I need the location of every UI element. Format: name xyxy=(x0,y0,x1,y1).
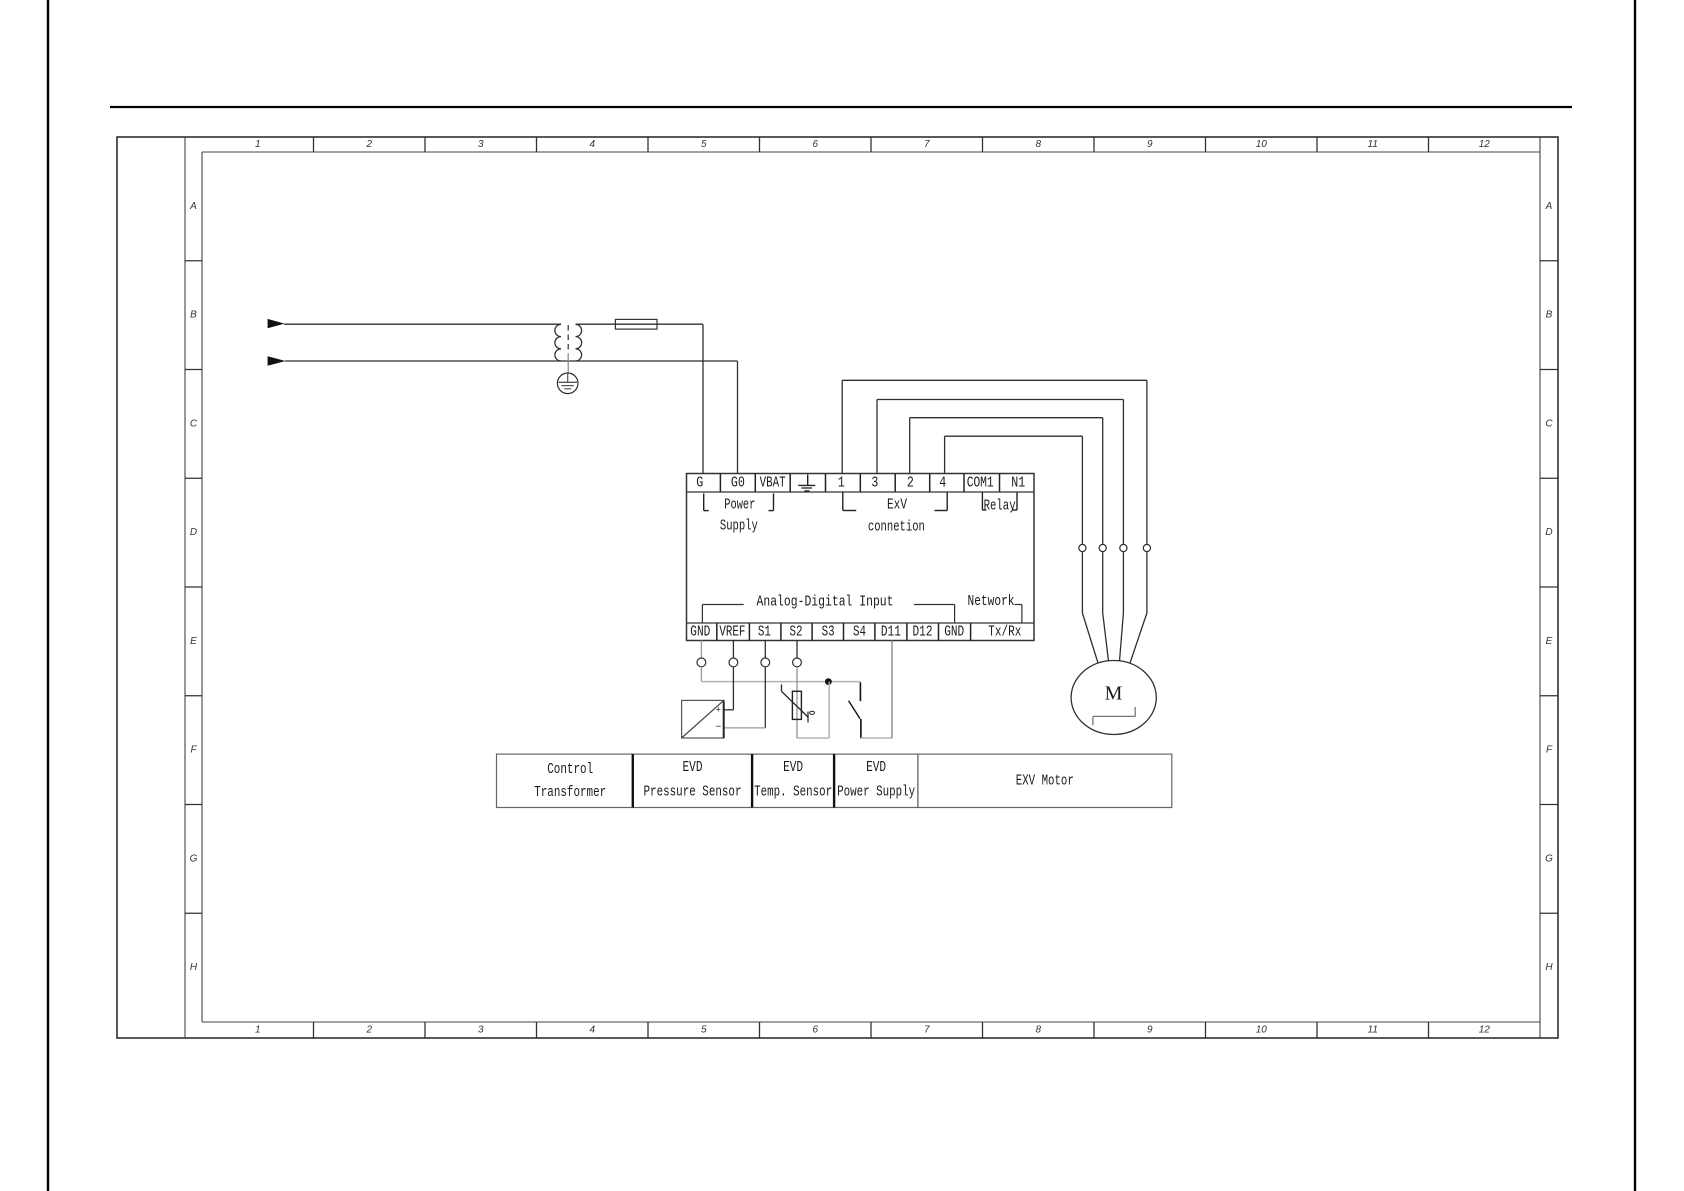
svg-text:2: 2 xyxy=(365,139,372,150)
svg-text:4: 4 xyxy=(939,475,946,492)
svg-text:N1: N1 xyxy=(1011,475,1025,492)
svg-text:GND: GND xyxy=(690,624,710,641)
svg-text:3: 3 xyxy=(478,139,484,150)
svg-text:9: 9 xyxy=(1147,139,1153,150)
svg-text:11: 11 xyxy=(1368,1025,1378,1036)
svg-text:B: B xyxy=(190,310,197,321)
svg-text:COM1: COM1 xyxy=(967,475,994,492)
svg-text:1: 1 xyxy=(255,1025,261,1036)
svg-text:D: D xyxy=(190,527,197,538)
svg-text:S4: S4 xyxy=(853,624,866,641)
svg-text:Tx/Rx: Tx/Rx xyxy=(988,624,1021,641)
svg-text:H: H xyxy=(1545,962,1553,973)
svg-text:GND: GND xyxy=(944,624,964,641)
svg-text:G: G xyxy=(1545,853,1553,864)
svg-text:E: E xyxy=(1546,636,1553,647)
svg-text:D: D xyxy=(1545,527,1552,538)
svg-text:M: M xyxy=(1105,683,1123,705)
svg-text:8: 8 xyxy=(1035,139,1041,150)
svg-text:EVD: EVD xyxy=(783,759,803,776)
svg-text:2: 2 xyxy=(365,1025,372,1036)
svg-text:7: 7 xyxy=(924,1025,930,1036)
svg-text:EVD: EVD xyxy=(866,759,886,776)
svg-text:connetion: connetion xyxy=(868,519,925,536)
svg-text:E: E xyxy=(190,636,197,647)
svg-text:5: 5 xyxy=(701,1025,707,1036)
svg-text:8: 8 xyxy=(1035,1025,1041,1036)
svg-text:S2: S2 xyxy=(790,624,803,641)
svg-text:Relay: Relay xyxy=(984,498,1016,515)
svg-text:A: A xyxy=(189,201,197,212)
svg-text:C: C xyxy=(1545,418,1553,429)
svg-text:G0: G0 xyxy=(731,475,745,492)
svg-text:10: 10 xyxy=(1256,1025,1268,1036)
svg-text:2: 2 xyxy=(907,475,914,492)
svg-text:Supply: Supply xyxy=(720,518,758,535)
svg-text:B: B xyxy=(1546,310,1553,321)
svg-text:S1: S1 xyxy=(758,624,771,641)
svg-text:EXV Motor: EXV Motor xyxy=(1016,773,1074,790)
svg-text:−: − xyxy=(715,721,721,732)
svg-text:H: H xyxy=(190,962,198,973)
svg-text:1: 1 xyxy=(838,475,845,492)
svg-text:6: 6 xyxy=(812,139,818,150)
svg-text:10: 10 xyxy=(1256,139,1268,150)
svg-text:G: G xyxy=(696,475,703,492)
svg-text:1: 1 xyxy=(255,139,261,150)
svg-text:ExV: ExV xyxy=(887,497,907,514)
svg-text:4: 4 xyxy=(589,139,595,150)
svg-text:VREF: VREF xyxy=(719,624,745,641)
svg-text:F: F xyxy=(1546,745,1553,756)
svg-text:Pressure Sensor: Pressure Sensor xyxy=(644,784,742,801)
svg-text:9: 9 xyxy=(1147,1025,1153,1036)
svg-text:S3: S3 xyxy=(822,624,835,641)
svg-text:Network: Network xyxy=(968,593,1015,610)
svg-text:VBAT: VBAT xyxy=(760,475,786,492)
svg-text:4: 4 xyxy=(589,1025,595,1036)
svg-text:3: 3 xyxy=(871,475,878,492)
svg-text:C: C xyxy=(190,418,198,429)
svg-text:Power Supply: Power Supply xyxy=(837,784,915,801)
svg-text:12: 12 xyxy=(1479,139,1491,150)
svg-text:+: + xyxy=(716,704,721,714)
svg-text:A: A xyxy=(1545,201,1553,212)
svg-text:D12: D12 xyxy=(913,624,933,641)
svg-text:Control: Control xyxy=(547,761,593,778)
svg-text:3: 3 xyxy=(478,1025,484,1036)
svg-text:EVD: EVD xyxy=(683,759,703,776)
svg-text:Temp. Sensor: Temp. Sensor xyxy=(754,784,832,801)
svg-text:6: 6 xyxy=(812,1025,818,1036)
svg-text:Transformer: Transformer xyxy=(534,784,606,801)
svg-text:G: G xyxy=(190,853,198,864)
svg-text:12: 12 xyxy=(1479,1025,1491,1036)
svg-text:Analog-Digital Input: Analog-Digital Input xyxy=(757,594,894,611)
svg-text:7: 7 xyxy=(924,139,930,150)
svg-text:Power: Power xyxy=(724,497,755,514)
svg-text:5: 5 xyxy=(701,139,707,150)
svg-text:11: 11 xyxy=(1368,139,1378,150)
svg-text:F: F xyxy=(190,745,197,756)
svg-text:D11: D11 xyxy=(881,624,901,641)
